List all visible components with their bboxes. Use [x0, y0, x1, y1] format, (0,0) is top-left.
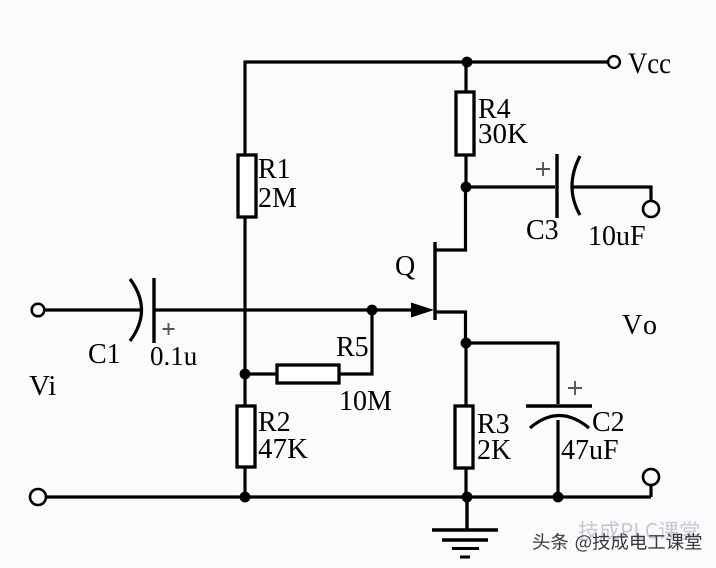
resistor R5	[277, 365, 339, 383]
transistor Q source stub	[435, 312, 466, 343]
node: drain / C3 junction	[461, 182, 472, 193]
resistor R3	[455, 406, 473, 468]
node: source / C2 junction	[461, 338, 472, 349]
wire: top rail to R4	[464, 62, 467, 93]
transistor Q channel bar	[433, 242, 436, 320]
terminal Vcc	[608, 56, 620, 68]
capacitor C2 polarity +	[568, 381, 582, 395]
wire: source node to C2	[466, 343, 558, 404]
terminal bottom-right	[643, 469, 659, 485]
capacitor C3 (straight plate)	[555, 154, 558, 218]
transistor Q gate arrow	[411, 303, 434, 318]
svg-text:Q: Q	[395, 251, 415, 282]
capacitor C2 (straight plate)	[526, 404, 592, 408]
watermark: faint 技成PLC课堂	[579, 521, 699, 541]
node: top rail / R4 junction	[462, 57, 473, 68]
wire: R4 bottom to drain node	[464, 155, 467, 188]
terminal Vi	[32, 304, 45, 317]
node: gate / R5 junction	[367, 305, 378, 316]
capacitor C1 (straight plate)	[152, 278, 155, 343]
capacitor C1 polarity +	[163, 323, 175, 335]
wire: ground stem	[465, 497, 468, 529]
capacitor C1 (curved plate)	[130, 279, 142, 341]
watermark: 头条@技成电工课堂	[533, 533, 701, 552]
svg-text:C1: C1	[88, 339, 121, 370]
wire: top rail down to R1	[243, 61, 246, 157]
svg-text:Vi: Vi	[29, 370, 56, 402]
svg-text:47K: 47K	[258, 433, 308, 465]
resistor R4	[456, 92, 474, 155]
wire: C2 bottom to bottom rail	[556, 420, 559, 497]
wire: Vi to C1	[45, 308, 140, 311]
wire: C1 to gate arrow	[154, 308, 414, 311]
svg-text:2M: 2M	[258, 183, 297, 214]
svg-text:10uF: 10uF	[588, 221, 646, 252]
svg-text:2K: 2K	[477, 435, 511, 466]
wire: source node down to R3	[464, 343, 467, 407]
terminal C3 output	[643, 201, 659, 217]
svg-text:Vcc: Vcc	[628, 47, 671, 80]
svg-text:R1: R1	[258, 154, 291, 185]
node: bottom rail / C2	[553, 492, 564, 503]
svg-text:30K: 30K	[478, 118, 528, 150]
wire: bottom rail	[45, 495, 651, 498]
wire: C3 to output terminal	[573, 187, 651, 201]
svg-text:0.1u: 0.1u	[150, 341, 198, 371]
wire: R1 bottom down to bottom rail	[243, 217, 246, 497]
wire: top supply rail	[245, 60, 607, 63]
ground	[432, 530, 498, 557]
wire: R3 bottom to bottom rail	[464, 468, 467, 497]
svg-text:10M: 10M	[339, 386, 392, 417]
capacitor C3 (curved plate)	[572, 156, 580, 215]
resistor R1	[238, 155, 256, 217]
svg-text:C2: C2	[592, 407, 625, 438]
wire: drain node to C3	[466, 185, 555, 188]
node: bottom rail / R2	[240, 492, 251, 503]
capacitor C2 (curved plate)	[530, 416, 589, 429]
transistor Q drain stub	[435, 188, 466, 250]
node: bottom rail / R3 ground	[462, 492, 473, 503]
terminal bottom-left	[30, 489, 46, 505]
capacitor C3 polarity +	[536, 162, 550, 176]
wire: R5 right riser to gate node	[339, 310, 372, 374]
svg-text:47uF: 47uF	[561, 435, 619, 466]
svg-text:R5: R5	[336, 332, 369, 363]
svg-text:C3: C3	[526, 215, 559, 246]
resistor R2	[237, 406, 255, 467]
wire: bottom rail riser to output terminal	[649, 484, 652, 497]
node: R5 / divider junction	[240, 369, 251, 380]
wire: R5 left to divider	[245, 372, 277, 375]
